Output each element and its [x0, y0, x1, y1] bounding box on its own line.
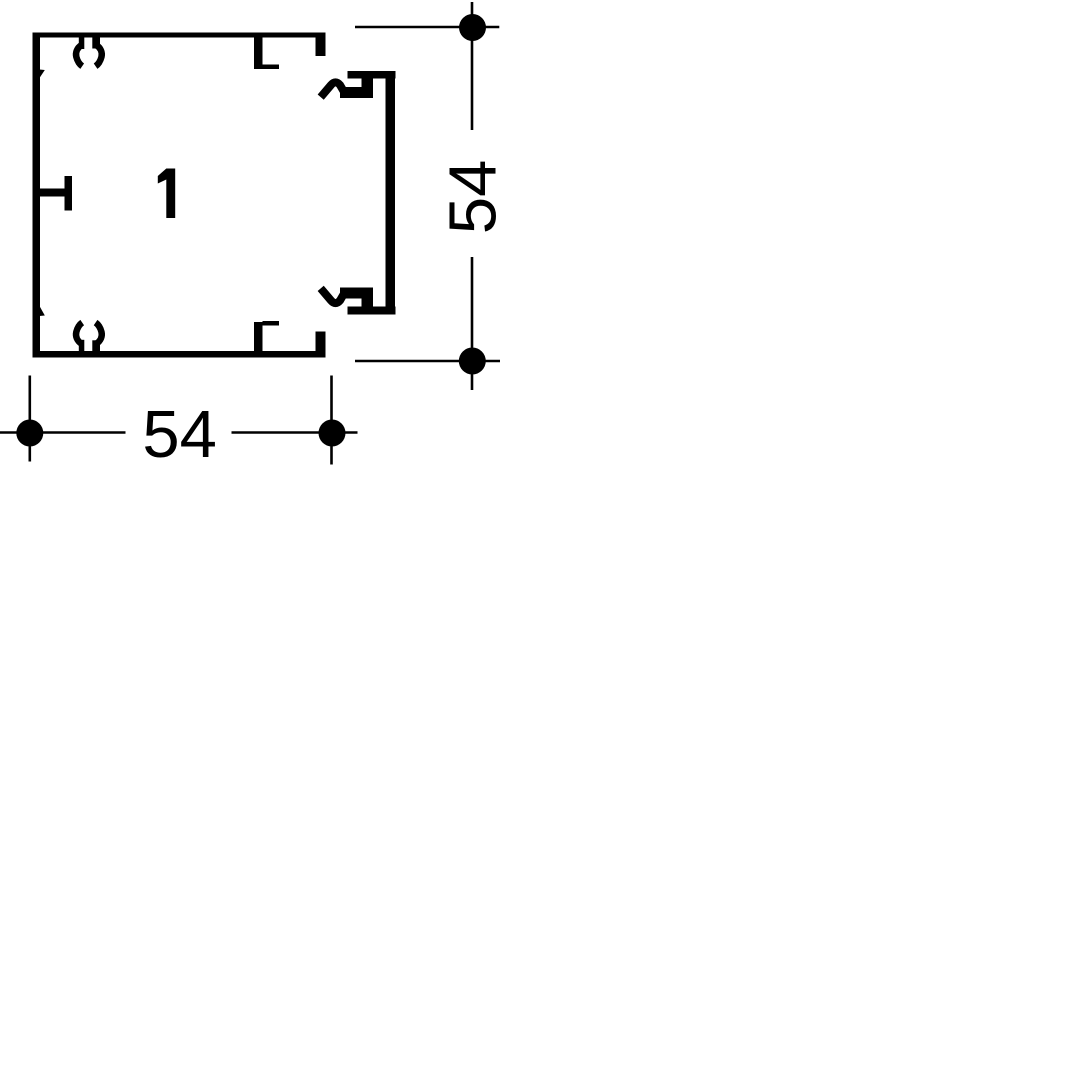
svg-text:54: 54: [142, 397, 217, 472]
svg-text:54: 54: [436, 160, 511, 235]
